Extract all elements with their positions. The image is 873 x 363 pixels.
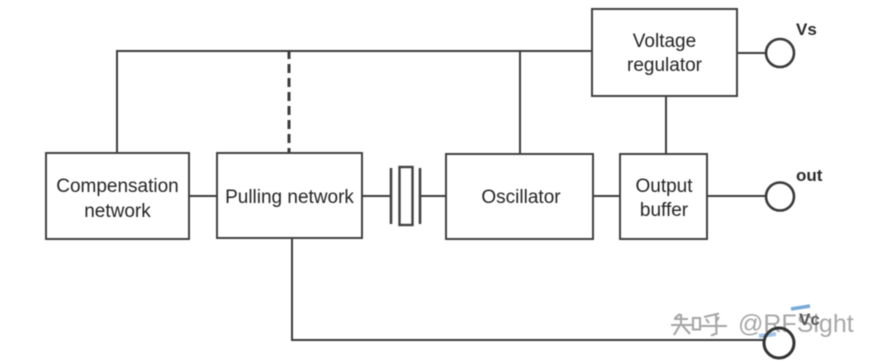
crystal body rect (400, 167, 413, 225)
wire: voltage regulator bottom to output buffer top (665, 96, 667, 154)
wire: oscillator to output buffer (593, 195, 620, 197)
wire: oscillator top to bus (519, 50, 521, 154)
crystal left plate (390, 168, 393, 224)
svg-text:regulator: regulator (627, 55, 703, 76)
svg-text:network: network (84, 201, 151, 222)
crystal resonator symbol (391, 167, 420, 225)
svg-text:Compensation: Compensation (56, 176, 179, 197)
wire: top bus horizontal (117, 50, 593, 52)
wire: voltage regulator to Vs terminal (737, 52, 766, 54)
svg-text:Voltage: Voltage (633, 31, 696, 52)
block: Output buffer (620, 154, 707, 239)
watermark: zhihu logo text 知 (671, 314, 700, 335)
watermark: zhihu logo text 乎 (701, 314, 727, 336)
wire: compensation network to pulling network (189, 195, 217, 197)
wire: crystal to oscillator (421, 195, 446, 197)
wire: dashed control line pulling network to bus (288, 50, 291, 153)
terminal out circle (766, 183, 794, 211)
svg-text:Vc: Vc (799, 310, 820, 329)
block: Compensation network (46, 153, 189, 239)
svg-text:@RFSight: @RFSight (738, 310, 854, 338)
terminal Vs circle (766, 39, 794, 67)
crystal right plate (419, 168, 422, 224)
svg-text:buffer: buffer (640, 200, 689, 221)
block: Pulling network (217, 153, 362, 238)
svg-text:Oscillator: Oscillator (481, 187, 561, 208)
wire: bottom horizontal to Vc terminal (291, 339, 765, 341)
wire: output buffer to out terminal (707, 195, 766, 197)
blue smudge near Vc wire (759, 334, 776, 336)
block: Voltage regulator (592, 9, 737, 96)
block: Oscillator (446, 154, 593, 239)
wire: compensation network top to bus (116, 50, 118, 153)
terminal Vc circle (764, 328, 794, 358)
svg-text:Output: Output (635, 176, 693, 197)
label Vc (blue annotated) (791, 306, 820, 329)
svg-text:Pulling network: Pulling network (225, 187, 354, 208)
wire: pulling network to crystal (362, 195, 390, 197)
svg-text:Vs: Vs (796, 20, 817, 39)
svg-text:out: out (796, 166, 823, 185)
wire: pulling network bottom vertical (291, 238, 293, 340)
